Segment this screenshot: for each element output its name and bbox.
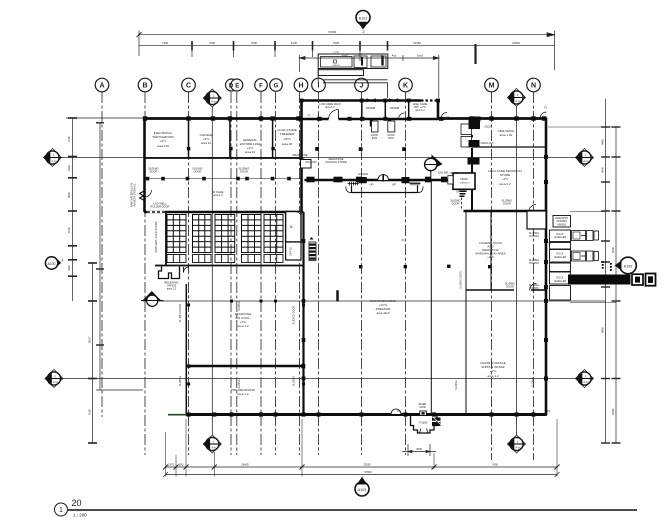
svg-text:7600: 7600 xyxy=(251,41,258,45)
mezzanine edge line with columns xyxy=(144,178,302,180)
svg-text:LEVELLER: LEVELLER xyxy=(554,236,566,239)
svg-text:area 1.2: area 1.2 xyxy=(167,287,177,291)
svg-text:6000: 6000 xyxy=(611,247,615,253)
section marker diamond top x=516.5 xyxy=(507,89,526,107)
section marker diamond top x=212 xyxy=(203,89,222,107)
svg-text:2175: 2175 xyxy=(168,463,174,467)
svg-text:CB103B: CB103B xyxy=(366,107,376,110)
svg-text:15600: 15600 xyxy=(512,41,520,45)
receiving dividing wall y=366 xyxy=(189,365,304,368)
bay partition 3 xyxy=(408,101,410,119)
svg-text:C01/23: C01/23 xyxy=(332,65,340,67)
svg-text:R: R xyxy=(290,225,294,228)
svg-text:A-xx: A-xx xyxy=(53,380,59,384)
svg-text:ACCESS?: ACCESS? xyxy=(305,161,317,164)
svg-text:24400: 24400 xyxy=(241,463,249,467)
svg-text:550: 550 xyxy=(179,463,184,467)
room partition C xyxy=(188,118,190,158)
svg-text:20: 20 xyxy=(72,498,82,508)
svg-text:A-xx: A-xx xyxy=(515,99,521,103)
svg-text:-25°C: -25°C xyxy=(283,137,292,141)
marshalling west wall x=466 xyxy=(465,211,467,415)
grid marker diamond right y=158 xyxy=(575,149,594,167)
grid line K xyxy=(405,92,407,455)
svg-text:UP: UP xyxy=(456,191,460,194)
svg-text:UP: UP xyxy=(370,182,374,186)
top dimension line overall xyxy=(137,31,555,71)
crate storage north wall y=290 xyxy=(466,289,514,291)
grid line H xyxy=(299,92,301,455)
svg-text:9700: 9700 xyxy=(67,136,71,142)
svg-text:A100: A100 xyxy=(48,262,56,266)
in-plan circle marker at (430.5,166) xyxy=(424,155,442,183)
dock step blocks right of riser xyxy=(432,418,441,427)
bubble B xyxy=(138,78,152,92)
svg-text:CB102: CB102 xyxy=(450,172,458,175)
grid line C xyxy=(188,92,190,455)
lift shaft hatched xyxy=(309,237,316,261)
room partition G xyxy=(272,118,274,158)
east wall xyxy=(545,118,548,416)
racking area west wall xyxy=(165,212,167,266)
svg-text:10450: 10450 xyxy=(413,41,421,45)
WALLS xyxy=(144,100,547,416)
bubble H xyxy=(294,78,308,92)
horizontal grid line 2 (y=301) xyxy=(143,300,606,302)
grid marker diamond left y=158 xyxy=(43,149,62,167)
svg-text:area 1.2: area 1.2 xyxy=(213,193,223,197)
grid line M xyxy=(491,92,493,460)
title circle 1 xyxy=(55,503,68,516)
svg-text:DOOR: DOOR xyxy=(388,135,395,137)
section marker diamond bottom x=516.5 xyxy=(507,435,526,453)
top wall west section xyxy=(144,117,302,120)
roller door dashed on racking top wall xyxy=(147,211,165,213)
svg-text:area 1.2: area 1.2 xyxy=(325,105,335,109)
svg-text:DOOR: DOOR xyxy=(452,202,460,206)
balloon A100 left xyxy=(45,257,63,269)
bay top door bowties xyxy=(367,98,399,102)
hall columns row y=267 xyxy=(359,265,491,269)
svg-text:K8001B: K8001B xyxy=(557,224,566,227)
racking area top wall xyxy=(144,211,304,214)
svg-text:32050: 32050 xyxy=(363,463,371,467)
top dimension line 3 (bay) xyxy=(300,55,439,98)
svg-text:H: H xyxy=(298,83,303,90)
right vertical dimension string 2 (x=616) xyxy=(612,127,621,443)
svg-text:area 18: area 18 xyxy=(282,142,293,146)
svg-text:DOOR: DOOR xyxy=(506,285,514,289)
north bay walls xyxy=(300,100,303,120)
bubble C xyxy=(182,78,196,92)
svg-text:AMBIENT STORAGE: AMBIENT STORAGE xyxy=(134,183,137,206)
svg-text:1 : 200: 1 : 200 xyxy=(73,513,87,518)
svg-text:CB103B: CB103B xyxy=(390,107,400,110)
bubble I xyxy=(312,78,326,92)
riser pedestal above wall xyxy=(420,411,427,416)
svg-text:4040: 4040 xyxy=(601,167,605,173)
svg-text:7600: 7600 xyxy=(209,41,216,45)
piers at wall x=472 xyxy=(469,120,481,129)
piers on bay bottom wall xyxy=(317,117,443,121)
svg-text:M: M xyxy=(489,83,495,90)
svg-text:+4°C: +4°C xyxy=(160,139,168,143)
west wall xyxy=(143,118,146,213)
svg-text:8100: 8100 xyxy=(88,409,92,415)
grid marker diamond right y=379 xyxy=(575,370,594,388)
section marker diamond bottom x=212 xyxy=(203,435,222,453)
svg-text:PACKING STORE: PACKING STORE xyxy=(325,160,346,164)
dock room east wall x=491 xyxy=(490,211,492,290)
svg-text:area 1.2: area 1.2 xyxy=(237,392,248,396)
svg-text:UP: UP xyxy=(392,182,396,186)
svg-text:A-xx: A-xx xyxy=(515,445,521,449)
svg-text:B103: B103 xyxy=(372,138,378,140)
title underline xyxy=(68,509,637,511)
svg-text:A103: A103 xyxy=(359,17,367,21)
svg-text:CAP SE: CAP SE xyxy=(290,247,293,256)
airlock door boxes on wall x=472 xyxy=(461,124,472,135)
svg-text:P1100: P1100 xyxy=(420,421,428,425)
bubble K xyxy=(399,78,413,92)
pier top wall at x=472-480 xyxy=(469,117,481,122)
bubble J xyxy=(355,78,369,92)
top wall east section xyxy=(437,117,547,120)
svg-text:area 1.2: area 1.2 xyxy=(237,324,248,328)
door zigzag symbol west wall xyxy=(140,191,144,200)
window box on spine wall xyxy=(301,160,312,169)
grid line B xyxy=(144,92,146,455)
central spine wall upper xyxy=(300,118,303,213)
svg-text:DOOR: DOOR xyxy=(150,170,158,174)
svg-text:DOORS: DOORS xyxy=(529,261,539,265)
despatch offices box xyxy=(553,216,571,228)
door arc at top wall east corner xyxy=(540,112,547,119)
svg-text:4x0: 4x0 xyxy=(392,54,397,58)
truck 2 outline xyxy=(572,251,599,261)
svg-text:area 12: area 12 xyxy=(201,141,212,145)
in-plan circle marker at (150.5,301) xyxy=(141,291,164,306)
left vertical dimension string 2 (x=92.5) xyxy=(88,263,97,443)
svg-text:A-xx: A-xx xyxy=(211,445,217,449)
svg-text:area 1.2: area 1.2 xyxy=(415,108,425,112)
svg-text:+4°C: +4°C xyxy=(487,255,495,259)
left vertical dimension string 1 (x=72.5) xyxy=(66,118,144,301)
svg-text:4481: 4481 xyxy=(601,139,605,145)
svg-text:14517: 14517 xyxy=(88,336,92,344)
svg-text:DOOR: DOOR xyxy=(194,170,202,174)
svg-text:6xx0: 6xx0 xyxy=(417,54,423,58)
svg-text:+4°C: +4°C xyxy=(490,369,498,373)
svg-text:DOOR: DOOR xyxy=(371,135,378,137)
svg-text:F: F xyxy=(259,84,263,90)
witness line right y=127 xyxy=(548,126,616,128)
svg-text:A-xx: A-xx xyxy=(51,159,57,163)
green survey segment on bottom wall xyxy=(168,414,186,416)
black truck at dock xyxy=(568,274,656,286)
svg-text:FL-DB-3 DOOR: FL-DB-3 DOOR xyxy=(178,304,182,322)
room below R xyxy=(286,242,301,260)
svg-text:CB103: CB103 xyxy=(484,126,492,129)
svg-text:CB102 OUT: CB102 OUT xyxy=(480,142,494,145)
svg-text:SLIDING: SLIDING xyxy=(532,377,535,387)
GRID_LINES xyxy=(102,92,534,460)
hall columns row y=149 xyxy=(315,147,406,151)
room divider wall y=147 east xyxy=(472,146,546,148)
store room R right of racking xyxy=(286,212,301,243)
svg-text:SLIDING: SLIDING xyxy=(178,376,182,386)
svg-text:7400: 7400 xyxy=(162,41,169,45)
svg-text:6100: 6100 xyxy=(291,41,298,45)
door arc wall y=211 near despatch xyxy=(529,205,536,212)
svg-text:DN LINE: DN LINE xyxy=(438,171,449,175)
door arc on bay bottom wall into hall xyxy=(338,110,340,120)
grid line D xyxy=(230,92,232,455)
east block wall y=211 xyxy=(464,210,547,213)
door arc west wall xyxy=(145,190,152,197)
svg-text:DOORS: DOORS xyxy=(529,234,539,238)
wall stub on grid line near spine xyxy=(336,290,338,301)
svg-text:+4°C: +4°C xyxy=(502,177,510,181)
bottom extension lines xyxy=(166,419,558,477)
svg-text:FREEZER: FREEZER xyxy=(280,132,295,136)
svg-text:area 1113: area 1113 xyxy=(376,311,389,315)
svg-text:area 1.2: area 1.2 xyxy=(487,374,498,378)
svg-text:N: N xyxy=(531,83,536,90)
P1100 riser structure xyxy=(411,416,438,434)
rotated labels xyxy=(129,183,539,390)
svg-text:SLIDING: SLIDING xyxy=(238,301,241,311)
svg-text:57800: 57800 xyxy=(364,470,372,474)
grid line J xyxy=(361,92,363,455)
grid line N xyxy=(533,92,535,460)
bubble A xyxy=(95,78,109,92)
door arc at stair landing xyxy=(378,175,389,180)
bubble G xyxy=(270,79,283,92)
svg-text:area 2.2: area 2.2 xyxy=(499,182,510,186)
top dimension line 2 xyxy=(139,41,555,64)
svg-text:A103: A103 xyxy=(358,488,366,492)
bay partition 2 xyxy=(384,101,386,119)
grid line E xyxy=(236,92,238,455)
grid marker diamond left y=379 xyxy=(45,370,64,388)
stairs main (UP) xyxy=(359,177,410,183)
balloon A103 top xyxy=(356,11,370,34)
racking area bottom wall xyxy=(155,265,304,267)
grid line I xyxy=(318,92,320,455)
room partition DE xyxy=(229,118,231,158)
horizontal grid line 3 (y=379) xyxy=(57,378,580,380)
svg-text:1: 1 xyxy=(59,507,63,514)
svg-text:A: A xyxy=(99,83,104,90)
svg-text:SLIDING: SLIDING xyxy=(455,380,458,390)
central spine wall lower xyxy=(302,212,304,415)
svg-text:A-xx: A-xx xyxy=(583,159,589,163)
svg-text:RAW MATL COLD STORE: RAW MATL COLD STORE xyxy=(154,221,158,252)
bottom dimension line 2 (y=474.5) xyxy=(163,472,560,477)
bubble F xyxy=(255,79,268,92)
dock leveller boxes column xyxy=(550,230,571,300)
door jamb stubs below bay wall xyxy=(370,120,373,127)
bubble M xyxy=(485,78,499,92)
left facade dim (x=100) xyxy=(96,123,143,390)
svg-text:7400: 7400 xyxy=(492,463,498,467)
bay partition 1 xyxy=(361,101,363,119)
svg-text:A100: A100 xyxy=(624,265,632,269)
svg-text:ABOVE: ABOVE xyxy=(296,156,305,160)
svg-text:SLIDING: SLIDING xyxy=(292,376,296,386)
svg-text:+1 MR ACT: +1 MR ACT xyxy=(458,182,470,185)
racking lower band xyxy=(167,255,283,263)
grid line F xyxy=(260,92,262,455)
svg-text:area 1.02: area 1.02 xyxy=(500,133,513,137)
svg-text:A-xx: A-xx xyxy=(583,380,589,384)
svg-text:B: B xyxy=(142,83,147,90)
mini dimension 4500 under P1100 xyxy=(402,444,436,456)
svg-text:ROLLER DOOR: ROLLER DOOR xyxy=(151,205,170,209)
door arc wall y=290 xyxy=(530,284,537,291)
pallet racking blocks xyxy=(167,215,283,253)
truck 1 outline xyxy=(572,231,599,241)
svg-text:7600: 7600 xyxy=(333,41,340,45)
svg-text:C-118: C-118 xyxy=(333,52,340,54)
balloon A100 right xyxy=(615,257,637,274)
svg-text:8700: 8700 xyxy=(67,227,71,233)
grid line A xyxy=(101,92,103,417)
door bump on bottom wall xyxy=(391,409,401,414)
svg-text:5400: 5400 xyxy=(67,165,71,171)
balloon A103 bottom xyxy=(355,475,369,496)
bubble D xyxy=(226,79,238,91)
svg-text:D: D xyxy=(229,84,234,90)
airlock wall x=472 xyxy=(471,118,473,124)
mezzanine edge wall x=431.3 xyxy=(430,181,432,415)
svg-text:B103: B103 xyxy=(388,138,394,140)
svg-text:4100: 4100 xyxy=(67,265,71,271)
mezzanine wall y=179.5 xyxy=(305,179,449,182)
svg-text:area 132: area 132 xyxy=(157,144,169,148)
bubble E xyxy=(231,79,243,91)
despatch offices room bump xyxy=(527,211,546,229)
bottom wall xyxy=(186,413,547,416)
stair enclosure below xyxy=(346,186,423,193)
horizontal grid line 1 (y=158) xyxy=(57,157,580,159)
svg-text:SLIDING DOOR: SLIDING DOOR xyxy=(292,305,296,324)
svg-text:9800: 9800 xyxy=(601,327,605,333)
svg-text:area 41: area 41 xyxy=(245,150,256,154)
svg-text:4500: 4500 xyxy=(416,447,422,451)
room front wall y=158 xyxy=(144,157,302,159)
mini steps xyxy=(460,191,467,198)
airlock room CB102 xyxy=(453,173,475,189)
svg-text:J: J xyxy=(360,83,364,90)
svg-text:8300: 8300 xyxy=(67,192,71,198)
vestibule door boxes below bay xyxy=(372,121,379,132)
section line x=212 xyxy=(211,105,213,436)
top inset detail boxes xyxy=(318,54,388,98)
svg-text:LEVELLER: LEVELLER xyxy=(554,280,566,283)
west lower wall x=186 xyxy=(185,284,187,416)
svg-text:GATE: GATE xyxy=(419,406,426,409)
svg-text:G: G xyxy=(274,84,279,90)
svg-text:4: 4 xyxy=(62,259,64,263)
svg-text:11045: 11045 xyxy=(611,408,615,416)
section line x=516.5 xyxy=(516,104,518,436)
svg-text:LEVELLER: LEVELLER xyxy=(554,256,566,259)
tick dot clusters on right dim lines xyxy=(602,261,612,271)
svg-text:ACCESS: ACCESS xyxy=(358,173,369,176)
svg-text:SLIDING DOOR: SLIDING DOOR xyxy=(460,271,463,289)
grid line G xyxy=(275,92,277,455)
svg-text:CB102: CB102 xyxy=(460,178,468,181)
svg-text:74600: 74600 xyxy=(328,30,337,34)
svg-text:DOOR: DOOR xyxy=(240,170,248,174)
bay bottom wall xyxy=(301,118,329,121)
right vertical dimension string 1 (x=605.5) xyxy=(601,99,610,443)
svg-text:DOORS: DOORS xyxy=(529,286,539,290)
svg-text:I: I xyxy=(318,83,320,90)
grid bubbles row xyxy=(95,78,540,92)
svg-text:SLIDING: SLIDING xyxy=(238,379,241,389)
svg-text:E: E xyxy=(235,84,239,90)
column squares xyxy=(143,99,548,417)
svg-text:A-xx: A-xx xyxy=(211,99,217,103)
svg-text:C: C xyxy=(186,83,191,90)
bubble N xyxy=(527,78,541,92)
svg-text:DOOR: DOOR xyxy=(503,202,511,206)
svg-text:K: K xyxy=(403,83,408,90)
bottom dimension line 1 (y=467) xyxy=(163,465,560,470)
receiving office bump-out xyxy=(159,267,180,279)
